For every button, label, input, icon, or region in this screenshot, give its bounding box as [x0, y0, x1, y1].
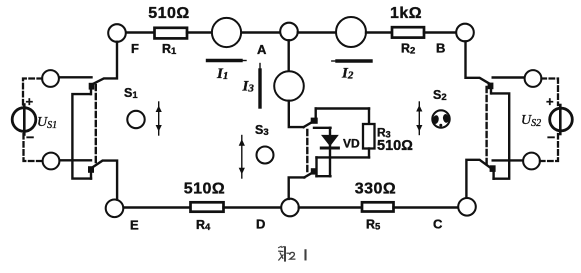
switch S2 top contact tick	[490, 89, 492, 93]
US2 source stem	[559, 105, 562, 134]
wire bottom rail E to R4	[124, 206, 191, 208]
US1 dashed lead top	[23, 79, 42, 106]
resistor R2	[392, 27, 424, 37]
svg-text:−: −	[547, 129, 555, 145]
resistor R1	[155, 28, 188, 39]
switch S2 top blade and wire from B	[466, 42, 492, 85]
switch S1 top blade and wire to F	[94, 42, 118, 84]
box top-left stub	[315, 109, 317, 121]
wire switch to US2 top terminal	[493, 76, 525, 78]
switch S1 direction arrow	[156, 102, 162, 135]
node D circle	[281, 199, 299, 217]
wire top rail F to R1	[126, 31, 155, 33]
meter circle M3	[274, 71, 304, 101]
diode VD cathode bar	[321, 147, 338, 150]
node E circle	[106, 200, 124, 218]
box bottom edge	[317, 156, 370, 158]
resistor R4	[191, 202, 224, 211]
box top edge	[316, 107, 369, 109]
svg-text:VD: VD	[343, 137, 360, 151]
resistor R5	[362, 202, 394, 211]
svg-text:510Ω: 510Ω	[184, 181, 226, 198]
wire R1 to meter	[187, 31, 213, 33]
US1 dashed lead bottom	[24, 134, 43, 161]
switch S2 crossover bracket	[492, 93, 509, 178]
wire M3 down to switch S3	[289, 101, 304, 127]
switch S2 top fixed contact	[488, 83, 494, 90]
svg-text:B: B	[436, 41, 445, 56]
svg-text:+: +	[546, 94, 554, 109]
box right edge upper	[368, 109, 370, 125]
switch S2 bottom fixed contact	[490, 165, 496, 172]
wire R5 to node C	[394, 206, 459, 208]
voltage source US2 circle	[550, 108, 573, 131]
wire R2 to node B	[424, 31, 457, 33]
current I3 arrow	[259, 64, 261, 108]
node A circle	[280, 23, 298, 41]
svg-text:510Ω: 510Ω	[148, 5, 190, 22]
caption figure 2-1	[279, 246, 306, 260]
terminal circle US1 top	[42, 70, 59, 87]
svg-text:E: E	[130, 218, 139, 233]
box bottom-left drop	[315, 157, 317, 176]
terminal circle US2 top	[525, 70, 542, 87]
node F circle	[108, 24, 126, 42]
meter circle M2	[336, 17, 366, 47]
voltage source US1 circle	[12, 108, 36, 132]
node B circle	[456, 24, 474, 42]
switch S1 crossover bracket	[72, 94, 91, 179]
wire node D to R5	[299, 206, 362, 208]
wire node A to meter M2	[298, 31, 337, 33]
svg-text:A: A	[257, 42, 267, 57]
switch S2 knob circle	[432, 110, 449, 127]
wire US1 top terminal to switch	[59, 76, 92, 78]
current I1 arrow	[208, 59, 247, 62]
switch S3 knob circle	[257, 147, 274, 164]
switch S3 top blade	[304, 120, 317, 127]
svg-text:S3: S3	[255, 123, 269, 138]
meter circle M1	[212, 18, 241, 47]
svg-text:I3: I3	[242, 79, 255, 95]
switch S1 knob circle	[127, 111, 144, 128]
switch S3 linkage dashed	[306, 130, 308, 171]
diode bottom connector	[317, 175, 331, 177]
svg-text:S1: S1	[124, 86, 138, 101]
switch S1 bottom blade and wire to E	[94, 161, 118, 200]
terminal circle US1 bottom	[43, 153, 60, 170]
US2 dashed lead bottom	[540, 134, 558, 161]
diode VD triangle	[321, 135, 339, 147]
wire meter to node A	[242, 31, 280, 33]
svg-text:F: F	[131, 41, 139, 56]
box right edge lower	[368, 149, 370, 158]
resistor R3	[363, 124, 375, 149]
svg-text:R4: R4	[196, 218, 211, 233]
switch S2 knob marks	[432, 114, 450, 127]
switch S1 linkage dashed	[95, 85, 97, 166]
switch S2 bottom blade and wire to C	[466, 160, 490, 198]
svg-text:US2: US2	[521, 113, 541, 129]
svg-text:D: D	[256, 217, 265, 232]
svg-text:R1: R1	[162, 42, 177, 57]
switch S3 top contact blob	[311, 118, 318, 124]
svg-text:−: −	[26, 129, 34, 145]
svg-text:I1: I1	[216, 66, 228, 82]
svg-text:R5: R5	[366, 218, 381, 233]
svg-text:1kΩ: 1kΩ	[390, 5, 422, 22]
svg-text:C: C	[433, 217, 443, 232]
wire switch to US2 bottom terminal	[493, 159, 524, 161]
switch S3 bottom contact blob	[311, 168, 317, 174]
diode VD vertical lead	[329, 128, 331, 176]
terminal circle US2 bottom	[523, 153, 540, 170]
svg-text:R2: R2	[401, 42, 415, 57]
svg-text:510Ω: 510Ω	[377, 138, 413, 154]
current I2 arrow	[332, 60, 371, 62]
switch S2 bottom contact tick	[492, 171, 494, 179]
svg-text:I2: I2	[341, 66, 354, 82]
wire R4 to node D	[224, 206, 282, 208]
US2 dashed lead top	[542, 79, 559, 106]
switch S1 top contact tick	[90, 90, 92, 95]
wire US1 bottom terminal to switch	[60, 159, 92, 161]
svg-text:US1: US1	[37, 115, 57, 131]
switch S3 bottom blade	[304, 171, 315, 177]
wire switch S3 down to node D	[289, 177, 305, 199]
switch S2 direction arrow	[416, 102, 422, 135]
svg-text:330Ω: 330Ω	[355, 181, 397, 198]
switch S1 top fixed contact	[89, 83, 95, 90]
diode top connector	[314, 127, 331, 129]
wire node A down to meter M3	[288, 40, 290, 71]
switch S2 linkage dashed	[485, 87, 487, 166]
switch S1 bottom contact tick	[90, 170, 92, 179]
switch S3 direction arrow	[239, 136, 245, 179]
node C circle	[458, 198, 476, 216]
wire M2 to R2	[366, 31, 392, 33]
switch S1 bottom fixed contact	[88, 166, 94, 173]
svg-text:S2: S2	[433, 88, 447, 103]
svg-text:+: +	[26, 94, 34, 109]
US1 source stem	[23, 105, 26, 135]
